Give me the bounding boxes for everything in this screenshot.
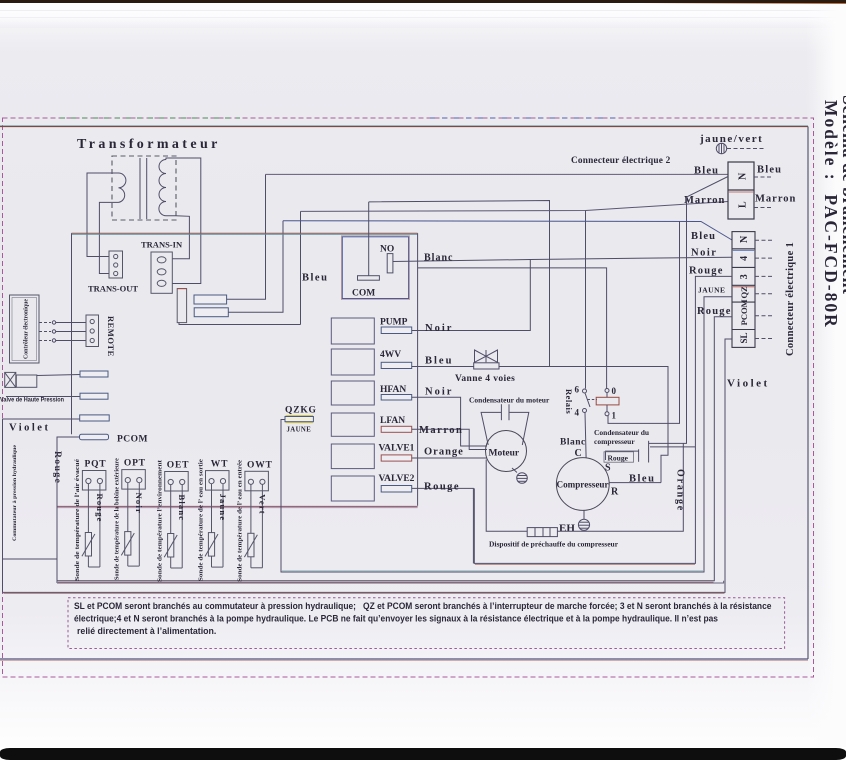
- pressure switch box bottom: [3, 558, 58, 560]
- svg-text:QZ: QZ: [739, 286, 749, 299]
- svg-text:QZKG: QZKG: [285, 406, 317, 416]
- wire motor to EH heater: [486, 460, 527, 532]
- wire PCB bottom edge: [57, 505, 418, 507]
- lug plate A: [194, 295, 227, 304]
- socket square LFAN: [331, 413, 374, 436]
- wire LFAN Marron to motor: [412, 429, 487, 449]
- svg-text:Compresseur: Compresseur: [557, 480, 609, 490]
- svg-text:4: 4: [739, 256, 750, 261]
- svg-text:Jaune: Jaune: [218, 494, 228, 522]
- svg-text:Noir: Noir: [425, 387, 453, 398]
- socket square 4WV: [331, 349, 374, 375]
- lug 3: [80, 415, 110, 421]
- lug VALVE1: [381, 455, 412, 461]
- wire lug3 / pressure box top: [3, 419, 81, 592]
- valve haute pression symbol: [5, 372, 37, 387]
- svg-text:LFAN: LFAN: [380, 416, 405, 426]
- svg-text:OWT: OWT: [247, 460, 273, 470]
- svg-text:SL: SL: [739, 333, 749, 344]
- svg-text:Blanc: Blanc: [560, 438, 586, 448]
- lug PCOM: [80, 434, 109, 440]
- relay link dashed: [588, 399, 598, 401]
- capacitor C-C plates: [638, 449, 640, 462]
- svg-text:Rouge: Rouge: [424, 482, 460, 493]
- motor M1: [486, 431, 527, 472]
- svg-text:WT: WT: [211, 460, 228, 470]
- wire PCB right edge: [417, 233, 419, 506]
- svg-text:Orange: Orange: [675, 469, 686, 512]
- svg-text:Connecteur électrique 1: Connecteur électrique 1: [785, 242, 796, 356]
- wire bus N net (lugB to connector1 N): [283, 221, 732, 240]
- svg-text:PQT: PQT: [85, 460, 107, 470]
- dashed stub (CN1): [755, 257, 774, 259]
- svg-text:Sonde de température de l’air: Sonde de température de l’air évacué: [75, 459, 81, 581]
- svg-text:N: N: [738, 172, 749, 180]
- heater EH box: [527, 528, 557, 537]
- svg-text:Noir: Noir: [134, 493, 144, 514]
- svg-text:PCOM: PCOM: [117, 435, 148, 445]
- svg-text:S: S: [605, 463, 611, 474]
- relay coil box: [596, 397, 619, 405]
- svg-text:Marron: Marron: [419, 425, 463, 436]
- lug VALVE2: [381, 486, 412, 493]
- sensor PQT: [82, 471, 106, 568]
- lug plate B: [194, 308, 228, 317]
- lug 1: [80, 371, 108, 377]
- wire cap right plate to Marron riser: [649, 442, 687, 444]
- svg-text:Rouge: Rouge: [697, 306, 732, 317]
- wire Marron diag into N cell: [687, 177, 729, 444]
- outer dashed border frame: [3, 118, 814, 677]
- lug PUMP: [381, 327, 412, 334]
- svg-text:Marron: Marron: [684, 195, 725, 206]
- dashed stub (CN1): [755, 275, 774, 277]
- wire NO Blanc to connector1 pin4: [393, 257, 732, 261]
- capacitor C-M arms and legs to motor: [481, 412, 529, 445]
- wire HFAN Noir to motor: [412, 397, 487, 446]
- wire CN1 PCOM to sensor common: [57, 317, 732, 581]
- svg-text:Bleu: Bleu: [302, 273, 328, 284]
- svg-text:JAUNE: JAUNE: [287, 427, 312, 434]
- transformer T1 dashed box: [112, 156, 176, 220]
- dashed stub (CN1): [755, 315, 774, 317]
- socket square HFAN: [331, 381, 374, 405]
- relay switch blade: [585, 393, 590, 407]
- controller box: [10, 295, 40, 363]
- valve vanne 4 voies symbol: [474, 350, 499, 369]
- socket square PUMP: [331, 318, 374, 344]
- fuse F1: [177, 289, 186, 323]
- lug 2: [80, 393, 108, 399]
- svg-text:Sonde de température de l’ eau: Sonde de température de l’ eau en sortie: [198, 459, 204, 581]
- wire S to capacitor left plate: [606, 451, 639, 460]
- connector CN2 box: [728, 162, 754, 219]
- wire bus COM-relay net: [369, 201, 550, 367]
- svg-text:Bleu: Bleu: [629, 474, 655, 485]
- svg-text:relié directement à l’alimenta: relié directement à l’alimentation.: [77, 626, 216, 636]
- svg-text:NO: NO: [380, 245, 394, 255]
- wire lugA to Bleu bus riser: [227, 174, 266, 299]
- svg-text:Bleu: Bleu: [694, 166, 719, 177]
- svg-text:électrique;4 et N seront branc: électrique;4 et N seront branchés à la p…: [74, 614, 718, 624]
- wire primary top to TRANS-OUT pin1: [87, 173, 119, 257]
- wire bus PCB top edge: [72, 232, 418, 234]
- svg-text:Vanne 4 voies: Vanne 4 voies: [455, 374, 515, 384]
- svg-text:REMOTE: REMOTE: [106, 316, 116, 357]
- wire VALVE2 Rouge to heater box: [412, 488, 474, 563]
- svg-text:Noir: Noir: [691, 248, 717, 259]
- svg-text:Valve de Haute Pression: Valve de Haute Pression: [0, 397, 64, 404]
- wire CN1 SL to pressure switch: [3, 339, 733, 592]
- relay coil terminal 1: [605, 412, 609, 416]
- svg-text:N: N: [739, 235, 750, 243]
- svg-text:Condensateur du moteur: Condensateur du moteur: [469, 396, 550, 405]
- svg-text:Sonde de température de l’ eau: Sonde de température de l’ eau en entrée: [238, 459, 244, 581]
- ground (motor): [512, 468, 527, 483]
- wire bus Bleu to connector2 N: [266, 173, 729, 175]
- dashed remote wires: [39, 321, 86, 324]
- svg-text:Bleu: Bleu: [757, 165, 782, 176]
- wire secondary top to TRANS-IN pin3: [166, 158, 201, 284]
- svg-text:Noir: Noir: [425, 323, 453, 334]
- svg-text:Contrôleur électronique: Contrôleur électronique: [24, 299, 30, 359]
- svg-text:4WV: 4WV: [380, 350, 401, 360]
- ground (jaune/vert): [716, 143, 764, 153]
- wire primary bottom to TRANS-OUT pin3: [99, 202, 118, 273]
- relay K1 box: [342, 237, 408, 299]
- svg-text:4: 4: [575, 408, 580, 418]
- svg-text:Modèle : PAC-FCD-80R: Modèle : PAC-FCD-80R: [821, 100, 841, 329]
- wire relay 4 to compressor C: [585, 413, 586, 458]
- sensor WT: [205, 471, 229, 567]
- svg-text:0: 0: [612, 386, 617, 396]
- svg-text:JAUNE: JAUNE: [698, 286, 726, 295]
- svg-text:Dispositif de préchauffe du co: Dispositif de préchauffe du compresseur: [489, 540, 619, 549]
- wire VALVE1 Orange to motor: [412, 457, 487, 459]
- svg-text:Rouge: Rouge: [689, 266, 724, 277]
- svg-text:Schéma de branchement: Schéma de branchement: [839, 95, 846, 294]
- svg-text:PUMP: PUMP: [380, 318, 408, 328]
- sensor box bottom wire: [57, 581, 724, 583]
- connector TRANS-OUT: [88, 251, 138, 294]
- wire Bleu riser (fuse to L bus): [300, 211, 302, 324]
- wire 4WV Bleu to vanne: [412, 366, 474, 368]
- wire PUMP Noir riser: [412, 260, 531, 331]
- dashed stub L (CN2): [754, 207, 773, 209]
- svg-text:Violet: Violet: [727, 378, 770, 390]
- svg-text:Bleu: Bleu: [425, 356, 453, 367]
- svg-text:Connecteur électrique 2: Connecteur électrique 2: [571, 156, 671, 166]
- svg-text:Marron: Marron: [755, 194, 796, 205]
- svg-text:1: 1: [612, 411, 617, 421]
- wire R to Bleu loop: [610, 482, 662, 484]
- connector TRANS-IN: [141, 240, 183, 294]
- wire PCB left edge to PCOM lug: [71, 233, 73, 434]
- wire PCOM to sensor box: [57, 437, 80, 583]
- wire lug2 left: [6, 396, 80, 398]
- wire branch to relay coil 0: [418, 268, 607, 389]
- svg-text:Sonde de température l’environ: Sonde de température l’environnement: [158, 460, 164, 582]
- dashed stub (CN1): [755, 293, 774, 295]
- wire EH to capacitor net: [557, 443, 683, 531]
- inner solid border: [0, 125, 808, 660]
- wire bus L net (fuse to connector2 L): [301, 202, 729, 212]
- wire vanne to Orange riser: [499, 367, 668, 483]
- svg-text:6: 6: [575, 385, 580, 395]
- svg-text:Moteur: Moteur: [489, 449, 520, 459]
- wire fuse bottom to Bleu riser: [179, 323, 301, 325]
- svg-text:Vert: Vert: [257, 494, 267, 515]
- dashed stub N (CN2): [754, 176, 773, 178]
- relay NO pin: [387, 254, 393, 273]
- svg-text:L: L: [738, 201, 749, 208]
- svg-text:Transformateur: Transformateur: [77, 137, 221, 152]
- relay coil terminal 0: [605, 389, 609, 393]
- dashed stub (CN1): [755, 338, 774, 340]
- socket square VALVE2: [331, 476, 374, 501]
- wire CN1 3 to compressor enclosure: [474, 276, 732, 563]
- socket square VALVE1: [331, 444, 374, 469]
- svg-text:TRANS-IN: TRANS-IN: [141, 240, 183, 250]
- connector CN1 box: [732, 232, 755, 348]
- transformer primary coil: [119, 173, 126, 202]
- svg-text:Orange: Orange: [424, 447, 464, 458]
- relay switch terminal 4: [583, 409, 587, 413]
- wire valve to lug1: [37, 375, 80, 376]
- note text: [74, 601, 772, 636]
- wire cap right plate to box edge: [650, 446, 695, 448]
- wire branch relay switch 6 riser: [585, 211, 587, 389]
- label Rouge boxed: [604, 452, 634, 462]
- transformer secondary coil: [159, 160, 166, 216]
- dashed stub (CN1): [755, 239, 774, 241]
- relay COM wire: [368, 202, 370, 276]
- lug 4WV: [381, 362, 412, 368]
- ground (compressor): [578, 510, 589, 530]
- svg-text:jaune/vert: jaune/vert: [699, 133, 763, 145]
- sensor OPT: [121, 470, 145, 566]
- svg-text:Bleu: Bleu: [691, 231, 716, 242]
- svg-text:compresseur: compresseur: [594, 437, 635, 446]
- svg-text:Condensateur du: Condensateur du: [594, 428, 649, 437]
- wire secondary bottom to TRANS-IN pin1: [166, 216, 189, 259]
- svg-text:Rouge: Rouge: [608, 453, 629, 462]
- sensor OWT: [244, 471, 268, 568]
- capacitor C-M plates: [500, 404, 502, 420]
- connector REMOTE: [86, 315, 99, 347]
- svg-text:Relais: Relais: [564, 389, 574, 414]
- svg-text:Blanc: Blanc: [424, 253, 453, 264]
- svg-text:Violet: Violet: [9, 423, 50, 434]
- svg-text:OPT: OPT: [124, 459, 146, 469]
- svg-text:Sonde de température de la bob: Sonde de température de la bobine extéri…: [115, 458, 121, 580]
- svg-text:Commutateur à pression hydraul: Commutateur à pression hydraulique: [12, 444, 18, 541]
- svg-text:COM: COM: [352, 289, 375, 299]
- svg-text:SL et PCOM seront branchés au: SL et PCOM seront branchés au commutateu…: [74, 601, 772, 611]
- svg-text:TRANS-OUT: TRANS-OUT: [88, 284, 138, 294]
- svg-text:VALVE1: VALVE1: [379, 444, 415, 454]
- QZKG lug: [285, 417, 313, 422]
- note box dashed: [68, 598, 785, 649]
- compressor CP1: [556, 458, 609, 511]
- svg-text:R: R: [611, 487, 619, 498]
- svg-text:VALVE2: VALVE2: [379, 474, 415, 484]
- sensor OET: [164, 472, 188, 569]
- svg-text:3: 3: [739, 274, 750, 279]
- svg-text:PCOM: PCOM: [739, 299, 749, 325]
- lug LFAN: [381, 426, 412, 432]
- svg-text:OET: OET: [167, 461, 189, 471]
- svg-text:HFAN: HFAN: [380, 385, 406, 395]
- lug HFAN: [381, 395, 412, 401]
- svg-text:EH: EH: [559, 523, 575, 535]
- wire relay coil riser to N bus: [608, 221, 680, 423]
- wire CN1 QZ to QZKG: [281, 297, 732, 572]
- svg-text:Blanc: Blanc: [177, 495, 187, 522]
- transformer core: [139, 158, 141, 219]
- wire lugB to N bus riser: [228, 221, 283, 313]
- relay switch terminal 6: [583, 389, 587, 393]
- relay COM plate: [358, 276, 380, 281]
- svg-text:Rouge: Rouge: [95, 494, 105, 523]
